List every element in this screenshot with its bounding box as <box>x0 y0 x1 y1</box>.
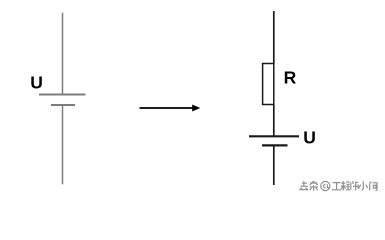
watermark glyph 何 <box>370 182 378 191</box>
battery U (left) long plate <box>39 94 86 96</box>
arrow (transformation) head <box>192 105 200 112</box>
svg-text:R: R <box>284 67 297 87</box>
watermark glyph @ ring <box>321 181 330 190</box>
wire: right circuit top lead <box>273 11 275 64</box>
wire: right circuit bottom lead <box>273 145 275 185</box>
resistor R1 body <box>263 64 274 105</box>
watermark glyph 条 <box>310 181 318 191</box>
watermark emboss highlight layer <box>300 182 378 192</box>
svg-text:U: U <box>303 128 316 148</box>
wire: left circuit bottom lead <box>62 105 64 184</box>
watermark glyph 师 <box>351 181 359 191</box>
watermark glyph @ inner a <box>324 184 330 188</box>
watermark gray text layer <box>299 181 377 191</box>
watermark glyph 程 <box>341 181 350 191</box>
svg-text:U: U <box>30 73 43 93</box>
battery U (left) short plate <box>51 104 75 106</box>
wire: right circuit between resistor and battery <box>273 105 275 137</box>
arrow (transformation) shaft <box>140 107 194 109</box>
watermark glyph 头 <box>299 181 308 190</box>
battery U (right) short plate <box>262 144 288 146</box>
wire: left circuit top lead <box>62 13 64 95</box>
watermark "头条@工程师小何" (drawn glyphs, embossed gray) <box>299 181 378 192</box>
watermark glyph 工 <box>332 183 341 190</box>
battery U (right) long plate <box>249 135 299 137</box>
watermark glyph 小 <box>359 181 368 190</box>
